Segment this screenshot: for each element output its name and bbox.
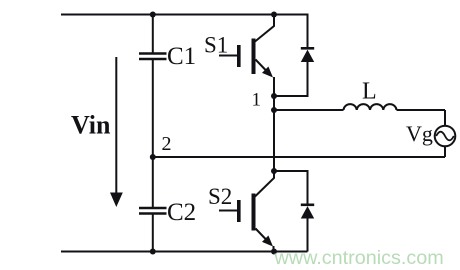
wire node1 to inductor — [274, 109, 344, 111]
junction dots — [150, 12, 277, 255]
wire C2 bottom stem — [152, 215, 154, 252]
wire D2 branch top — [274, 171, 308, 204]
transistor S2 — [219, 171, 274, 252]
wire D1 branch bottom — [274, 62, 308, 97]
wire C1 bottom stem to node 2 — [152, 60, 154, 208]
capacitor C1 — [139, 54, 167, 60]
svg-text:S1: S1 — [204, 33, 228, 58]
node dot 2 — [150, 154, 156, 160]
source Vg — [435, 126, 456, 147]
node dot bottom S2 — [271, 249, 277, 255]
svg-text:www.cntronics.com: www.cntronics.com — [274, 247, 444, 269]
svg-text:S2: S2 — [208, 184, 232, 209]
diode D2 — [301, 204, 314, 219]
wire C1 top stem — [152, 15, 154, 54]
Vin arrow — [110, 57, 123, 207]
node dot top S1 — [271, 12, 277, 18]
transistor S1 — [219, 15, 274, 78]
wire middle rail node2 to Vg — [153, 156, 445, 158]
wire D2 branch bottom — [307, 218, 309, 252]
svg-text:2: 2 — [162, 133, 172, 155]
capacitor C2 — [139, 208, 167, 214]
wire Vg bottom lead — [444, 147, 446, 157]
node dot bottom C2 — [150, 249, 156, 255]
inductor L — [344, 104, 397, 110]
svg-text:Vg: Vg — [406, 121, 433, 146]
svg-text:C1: C1 — [167, 43, 196, 70]
wire main vertical leg — [273, 77, 275, 177]
svg-text:L: L — [362, 79, 377, 105]
node dot 1 output — [271, 107, 277, 113]
wire Vg top lead — [444, 110, 446, 125]
diode D1 — [301, 47, 314, 62]
wire D1 branch top — [274, 15, 308, 48]
svg-text:Vin: Vin — [71, 111, 111, 140]
svg-text:1: 1 — [252, 90, 262, 111]
node dot S2 top — [271, 168, 277, 174]
node dot D1 return — [271, 93, 277, 99]
node dot top C1 — [150, 12, 156, 18]
svg-text:C2: C2 — [167, 199, 196, 226]
wire bottom rail — [61, 251, 308, 253]
wire inductor to Vg corner — [397, 109, 446, 111]
wire top rail — [61, 14, 308, 16]
